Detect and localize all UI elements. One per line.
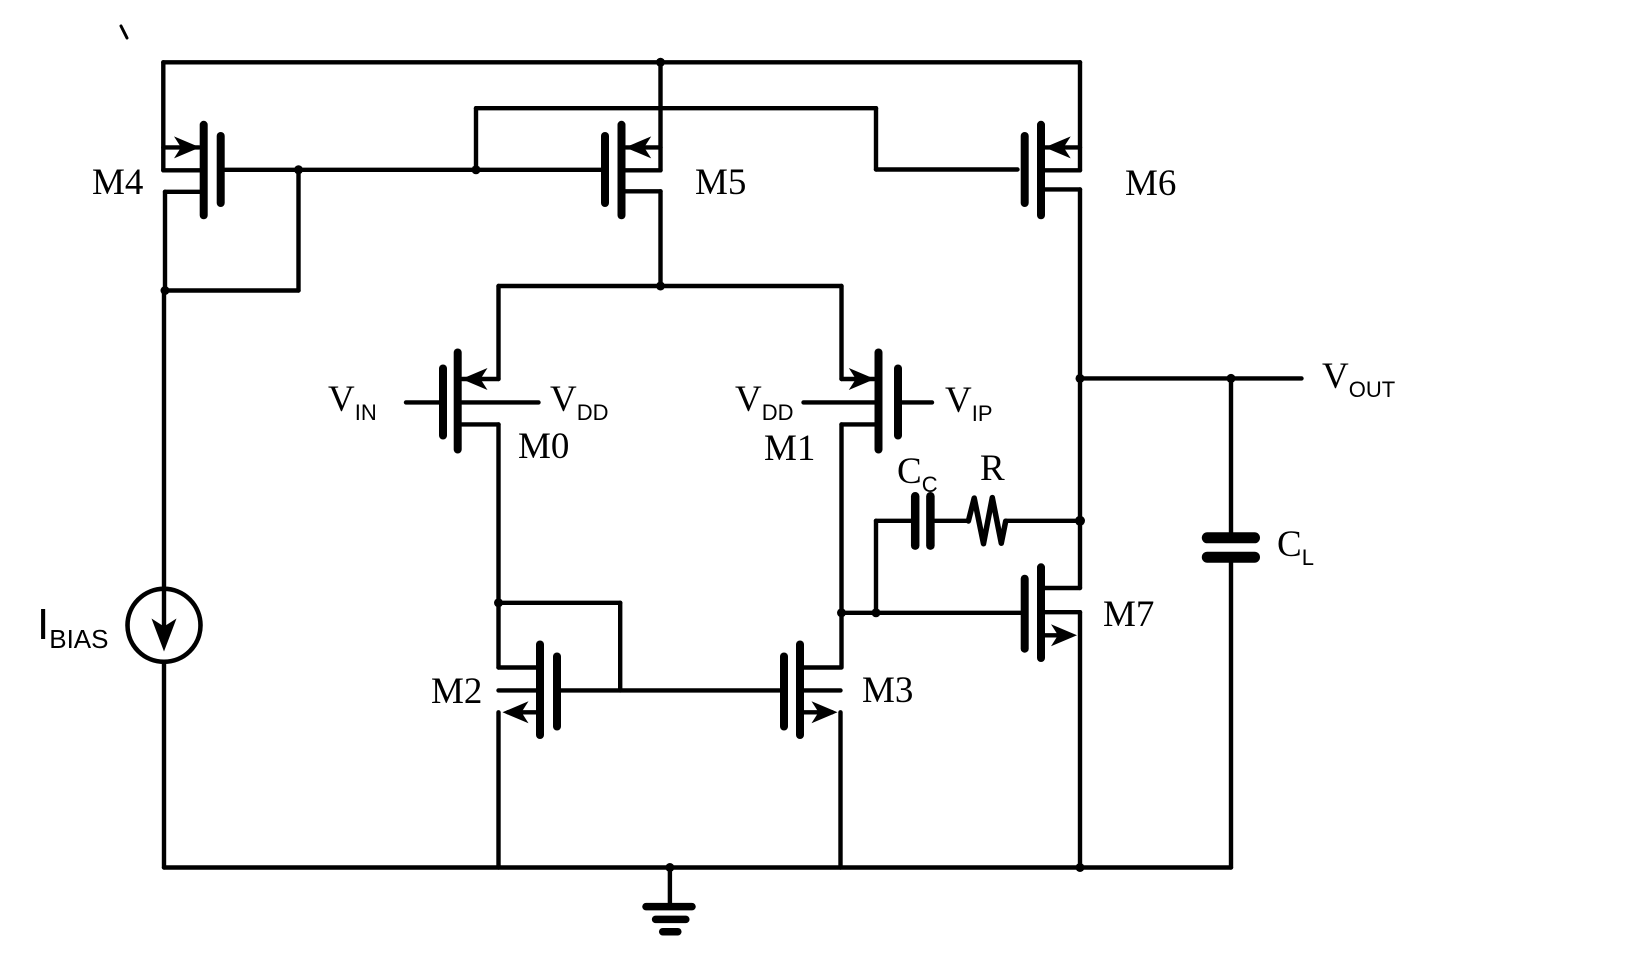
wire tail to M0 source [496, 286, 500, 379]
svg-text:VOUT: VOUT [1322, 356, 1395, 402]
svg-text:M4: M4 [92, 162, 143, 203]
wire gate feed horizontal to M6 [476, 106, 876, 110]
wire M1 drain vertical [837, 424, 846, 667]
wire M7 source vertical [1078, 612, 1082, 867]
ground symbol [646, 863, 692, 932]
transistor M4 [163, 125, 220, 216]
wire M2 source vertical [496, 712, 500, 867]
wire VDD top rail [163, 60, 1080, 64]
wire M3 source vertical [838, 712, 842, 867]
wire left rail lower [162, 662, 166, 868]
wire compensation branch vertical [872, 521, 912, 618]
svg-text:CL: CL [1277, 524, 1314, 570]
ground rail bottom [164, 865, 1231, 869]
svg-text:IBIAS: IBIAS [37, 600, 108, 654]
wire M4 diode connection [161, 165, 304, 295]
transistor M6 [1025, 125, 1080, 216]
svg-text:R: R [980, 448, 1005, 489]
transistor M7 [1025, 567, 1080, 658]
wire CL bottom vertical [1229, 563, 1233, 868]
wire M5 source vertical [656, 58, 665, 171]
resistor R [968, 498, 1005, 544]
wire M2 diode connection [494, 598, 620, 690]
stray tick mark top-left [121, 26, 127, 38]
wire tail node horizontal [499, 282, 842, 291]
svg-text:M0: M0 [518, 426, 569, 467]
wire M6 drain vertical [1078, 189, 1082, 588]
svg-text:VIP: VIP [945, 380, 993, 426]
wire CL top vertical [1229, 378, 1233, 532]
svg-text:VDD: VDD [550, 379, 609, 425]
wire M4 drain down [163, 192, 167, 291]
svg-text:M1: M1 [764, 428, 815, 469]
wire gate-feed jog at x=476 [472, 108, 481, 174]
svg-text:M7: M7 [1103, 594, 1154, 635]
wire M6 source vertical [1078, 62, 1082, 170]
capacitor CC [915, 496, 968, 545]
wire M7 gate line [842, 611, 1022, 615]
svg-text:M6: M6 [1125, 163, 1176, 204]
wire left rail to IBIAS [162, 291, 166, 590]
wire R to output node [1006, 516, 1085, 526]
wire tail to M1 source [839, 286, 843, 379]
capacitor CL [1207, 538, 1254, 557]
svg-text:M5: M5 [695, 162, 746, 203]
wire left rail upper (M4 source) [161, 62, 165, 170]
svg-text:VIN: VIN [328, 379, 377, 425]
wire M6 gate jog [876, 108, 1018, 169]
wire VOUT horizontal [1076, 374, 1302, 383]
transistor M1 [804, 353, 933, 450]
current source IBIAS [128, 589, 201, 662]
transistor M3 [784, 645, 841, 736]
transistor M5 [605, 125, 661, 216]
svg-text:VDD: VDD [735, 379, 794, 425]
transistor M0 [406, 353, 539, 450]
wire M4 gate to M5 gate [225, 168, 602, 172]
svg-text:M2: M2 [431, 671, 482, 712]
wire M0 drain vertical [496, 424, 500, 667]
transistor M2 [499, 645, 558, 736]
svg-text:CC: CC [897, 451, 938, 497]
svg-text:M3: M3 [862, 670, 913, 711]
wire M5 drain to tail node [658, 191, 662, 286]
wire M2 gate to M3 gate [561, 688, 780, 692]
